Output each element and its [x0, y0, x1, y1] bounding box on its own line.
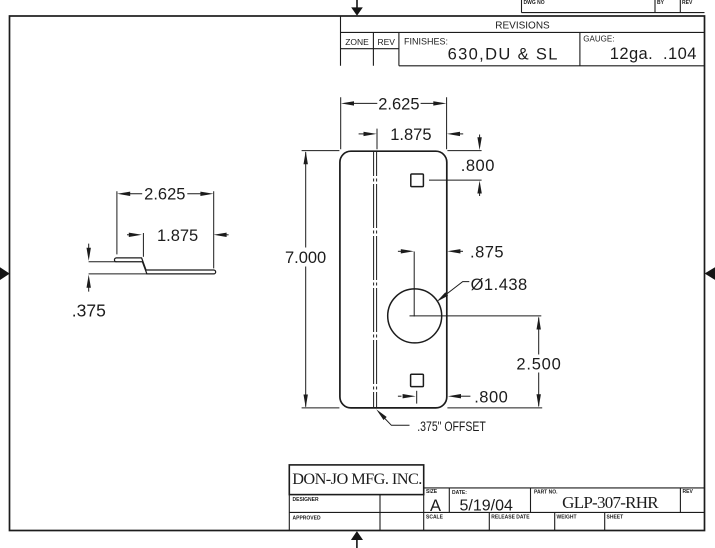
svg-text:REV: REV [682, 0, 693, 6]
svg-text:.375" OFFSET: .375" OFFSET [417, 419, 486, 435]
dim 2.625 top extension lines [341, 97, 447, 149]
circle crosshair [410, 252, 542, 317]
title block company box [289, 465, 423, 495]
svg-text:2.500: 2.500 [516, 355, 561, 373]
svg-text:5/19/04: 5/19/04 [460, 497, 513, 514]
leader for .375 offset note [385, 418, 410, 425]
left fold mark [0, 267, 10, 280]
profile dim .375 arrows [88, 244, 90, 292]
dim 2.500 extension line (bottom) [447, 407, 542, 409]
dim 1.875 top extension line [376, 129, 378, 150]
title block grid [289, 488, 704, 531]
dim .800 bottom extension from square [416, 391, 418, 404]
profile dim 2.625 extension lines [117, 191, 214, 268]
svg-text:7.000: 7.000 [285, 249, 326, 267]
svg-text:GAUGE:: GAUGE: [583, 34, 614, 43]
svg-text:GLP-307-RHR: GLP-307-RHR [562, 493, 659, 512]
svg-text:2.625: 2.625 [144, 185, 185, 203]
dim .800 bottom arrows [398, 395, 402, 397]
svg-text:PART NO.: PART NO. [534, 490, 558, 496]
bend centerline right [376, 152, 378, 408]
dim 7.000 extension lines [302, 151, 340, 408]
profile dim 1.875 arrows [127, 234, 131, 236]
svg-text:SHEET: SHEET [607, 515, 624, 521]
profile dim 1.875 extension line [142, 233, 144, 257]
svg-text:.375: .375 [72, 300, 106, 320]
top fold mark [351, 0, 363, 16]
svg-text:DWG NO: DWG NO [524, 0, 545, 6]
dim .875 arrows [398, 250, 401, 252]
svg-text:630,DU & SL: 630,DU & SL [448, 45, 559, 63]
svg-text:REV: REV [377, 37, 395, 47]
svg-text:DON-JO MFG. INC.: DON-JO MFG. INC. [292, 469, 422, 488]
svg-text:FINISHES:: FINISHES: [404, 36, 448, 46]
svg-text:DATE:: DATE: [452, 490, 467, 496]
bottom fold mark [351, 531, 363, 548]
svg-text:Ø1.438: Ø1.438 [471, 276, 528, 294]
bottom square hole [411, 374, 424, 386]
svg-text:.800: .800 [474, 389, 508, 407]
dim 2.500 dimension line [538, 318, 540, 407]
svg-text:.800: .800 [461, 157, 495, 175]
top square hole [411, 174, 424, 187]
svg-text:BY: BY [657, 0, 665, 6]
svg-text:SCALE: SCALE [426, 515, 444, 521]
bend centerline left [373, 152, 375, 408]
right fold mark [705, 267, 715, 280]
dim 2.625 top dimension line [352, 102, 435, 104]
svg-text:REVISIONS: REVISIONS [495, 21, 550, 32]
svg-text:REV: REV [683, 489, 694, 495]
svg-text:RELEASE DATE: RELEASE DATE [491, 515, 530, 521]
dim 7.000 dimension line [305, 152, 307, 407]
leader for diameter 1.438 [446, 282, 469, 295]
latch circle [388, 289, 442, 343]
svg-text:APPROVED: APPROVED [293, 516, 321, 522]
svg-text:ZONE: ZONE [345, 37, 369, 47]
profile dim 2.625 dimension line [130, 193, 202, 195]
svg-text:1.875: 1.875 [390, 126, 431, 144]
svg-text:WEIGHT: WEIGHT [557, 515, 577, 521]
svg-text:12ga. .104: 12ga. .104 [610, 45, 697, 63]
svg-text:DESIGNER: DESIGNER [293, 497, 320, 503]
profile reference lines [89, 262, 147, 274]
dim 1.875 top arrows [359, 133, 365, 135]
revisions table [341, 16, 705, 66]
svg-text:2.625: 2.625 [378, 96, 419, 114]
main view plate outline [340, 151, 447, 408]
svg-text:1.875: 1.875 [157, 227, 198, 245]
top edge strip (cut-off row) [522, 0, 705, 13]
svg-text:A: A [430, 497, 441, 515]
left profile view plate section [114, 258, 215, 274]
svg-text:.875: .875 [470, 244, 504, 262]
svg-text:SIZE: SIZE [426, 489, 438, 495]
dim .800 top-right arrows [479, 135, 481, 197]
dim .800 top-right reference lines [429, 151, 482, 181]
